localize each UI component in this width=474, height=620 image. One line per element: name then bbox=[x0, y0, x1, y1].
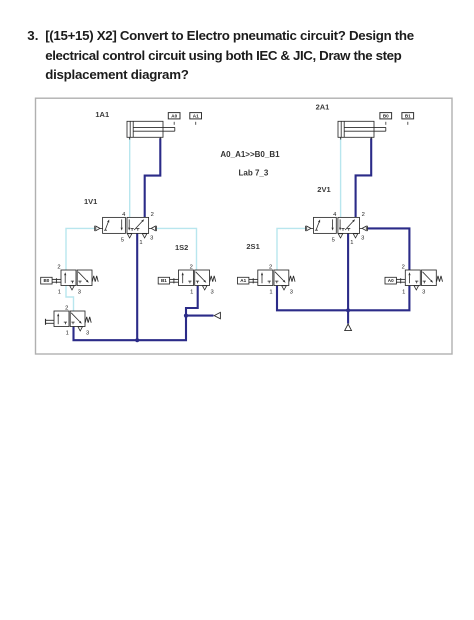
svg-text:3: 3 bbox=[86, 330, 89, 336]
svg-text:2: 2 bbox=[65, 306, 68, 312]
svg-text:1: 1 bbox=[66, 330, 69, 336]
svg-text:5: 5 bbox=[332, 238, 335, 244]
svg-text:5: 5 bbox=[121, 238, 124, 244]
svg-text:1: 1 bbox=[58, 289, 61, 295]
svg-text:3: 3 bbox=[78, 289, 81, 295]
svg-text:2: 2 bbox=[57, 265, 60, 271]
svg-text:2: 2 bbox=[362, 212, 365, 218]
svg-text:B1: B1 bbox=[405, 114, 411, 119]
svg-text:2: 2 bbox=[190, 265, 193, 271]
svg-text:1: 1 bbox=[402, 289, 405, 295]
svg-text:3: 3 bbox=[290, 289, 293, 295]
svg-text:3: 3 bbox=[361, 235, 364, 241]
svg-text:4: 4 bbox=[122, 212, 126, 218]
svg-text:A1: A1 bbox=[240, 278, 246, 283]
svg-text:1V1: 1V1 bbox=[84, 197, 97, 206]
svg-text:1: 1 bbox=[350, 240, 353, 246]
svg-text:Lab 7_3: Lab 7_3 bbox=[239, 168, 269, 177]
svg-text:3: 3 bbox=[150, 235, 153, 241]
svg-text:3: 3 bbox=[210, 289, 213, 295]
svg-text:B0: B0 bbox=[383, 114, 389, 119]
svg-text:A0: A0 bbox=[171, 114, 177, 119]
svg-text:B1: B1 bbox=[161, 278, 167, 283]
svg-text:2: 2 bbox=[402, 265, 405, 271]
svg-text:B0: B0 bbox=[43, 278, 49, 283]
svg-text:A0_A1>>B0_B1: A0_A1>>B0_B1 bbox=[220, 150, 280, 159]
svg-text:1: 1 bbox=[269, 289, 272, 295]
svg-text:2V1: 2V1 bbox=[317, 185, 330, 194]
svg-text:2S1: 2S1 bbox=[246, 242, 259, 251]
svg-text:A1: A1 bbox=[193, 114, 199, 119]
svg-text:A0: A0 bbox=[388, 278, 394, 283]
svg-text:3: 3 bbox=[422, 289, 425, 295]
svg-text:2A1: 2A1 bbox=[316, 102, 330, 111]
svg-text:2: 2 bbox=[151, 212, 154, 218]
svg-text:1S2: 1S2 bbox=[175, 243, 188, 252]
svg-text:4: 4 bbox=[333, 212, 337, 218]
svg-text:1A1: 1A1 bbox=[95, 110, 109, 119]
svg-text:1: 1 bbox=[190, 289, 193, 295]
svg-text:2: 2 bbox=[269, 265, 272, 271]
svg-text:1: 1 bbox=[139, 240, 142, 246]
